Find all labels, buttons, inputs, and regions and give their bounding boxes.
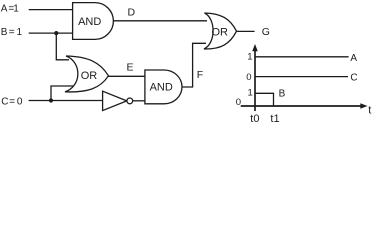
svg-text:OR: OR [81, 70, 98, 82]
wire input B [29, 32, 73, 34]
svg-text:t0: t0 [250, 113, 259, 125]
svg-text:AND: AND [78, 16, 101, 28]
junction dot node B [54, 31, 58, 35]
timing trace signal B pulse [255, 93, 274, 106]
svg-text:AND: AND [150, 82, 173, 94]
svg-text:1: 1 [247, 52, 252, 63]
svg-text:A: A [350, 53, 357, 64]
timing x-axis arrowhead [360, 103, 367, 109]
wire input C [29, 100, 104, 102]
timing trace signal C [255, 76, 348, 78]
OR gate U5 [204, 13, 237, 49]
wire F [180, 43, 206, 87]
svg-text:t1: t1 [270, 113, 279, 125]
svg-text:t: t [368, 105, 371, 117]
svg-text:B=1: B=1 [1, 27, 23, 38]
svg-text:1: 1 [248, 87, 253, 98]
junction dot node C [49, 98, 53, 102]
svg-text:A=1: A=1 [1, 3, 20, 14]
OR gate U2 [65, 56, 109, 92]
AND gate U1 [73, 3, 114, 40]
inverter U3 [103, 91, 127, 110]
wire E [108, 75, 146, 77]
svg-text:C: C [350, 73, 357, 84]
wire B branch to OR1 [56, 33, 69, 60]
AND gate U4 [145, 70, 182, 104]
timing y-axis [254, 49, 256, 111]
svg-text:G: G [262, 26, 270, 38]
svg-text:C=0: C=0 [1, 96, 23, 107]
wire input A [29, 9, 73, 11]
svg-text:0: 0 [246, 72, 251, 83]
svg-text:B: B [279, 89, 286, 100]
inverter bubble [127, 98, 133, 104]
wire C branch to OR1 [51, 86, 74, 101]
timing x-axis [241, 105, 362, 107]
svg-text:0: 0 [236, 97, 241, 108]
timing trace signal A [255, 56, 349, 58]
wire G [236, 30, 255, 32]
wire inverter output [133, 100, 146, 102]
svg-text:E: E [127, 62, 134, 74]
svg-text:OR: OR [211, 26, 228, 38]
svg-text:D: D [128, 7, 136, 19]
timing y-axis arrowhead [252, 44, 258, 51]
svg-text:F: F [197, 69, 203, 81]
wire D [113, 20, 208, 22]
